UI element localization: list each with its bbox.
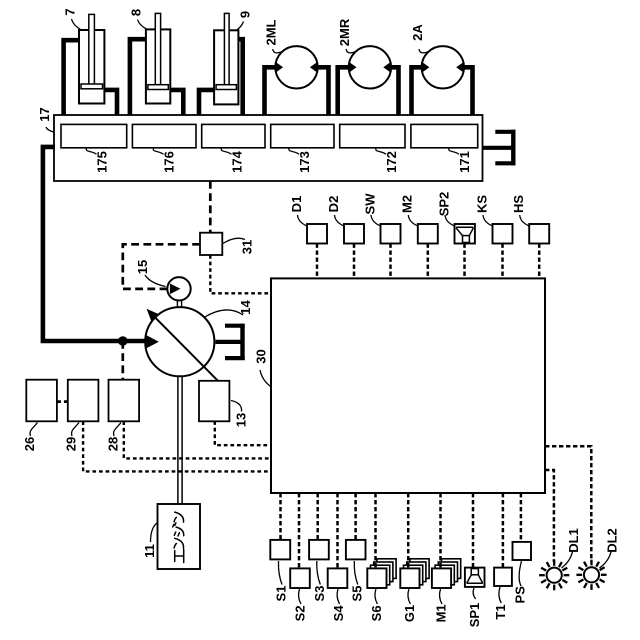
label 28 xyxy=(106,423,122,452)
svg-text:S2: S2 xyxy=(293,605,308,621)
label HS xyxy=(511,195,530,227)
wire: cylinder 8 head-side pipe xyxy=(130,39,146,117)
tank symbol (pump suction) xyxy=(216,324,245,360)
svg-text:14: 14 xyxy=(238,300,253,315)
control valve 176 xyxy=(132,124,196,147)
wire: cylinder 7 rod-side pipe xyxy=(104,90,117,117)
motor 2ML xyxy=(275,46,317,88)
sensor D1 xyxy=(307,224,327,244)
label 30 xyxy=(254,349,271,386)
svg-text:M1: M1 xyxy=(434,604,449,622)
label S1 xyxy=(274,561,289,601)
sensor PS xyxy=(513,542,532,560)
svg-text:31: 31 xyxy=(240,240,255,254)
signal line: controller to S2 xyxy=(298,493,301,568)
label D2 xyxy=(326,196,345,227)
label T1 xyxy=(493,587,508,620)
cylinder 8 xyxy=(146,13,170,103)
label KS xyxy=(474,195,493,227)
arrowhead: flow into pump 14 xyxy=(146,335,159,349)
shaft: engine to pump xyxy=(178,376,182,504)
signal line: regulator 13 to controller xyxy=(215,421,271,445)
signal line: controller to DL2 xyxy=(545,446,591,562)
box 26 xyxy=(26,380,57,422)
svg-text:S1: S1 xyxy=(274,586,289,602)
box 29 xyxy=(68,380,99,422)
label 173 xyxy=(289,148,312,173)
engine 11 xyxy=(158,504,201,569)
svg-text:17: 17 xyxy=(37,107,52,121)
wire: motor 2A left pipe xyxy=(412,67,423,117)
label 172 xyxy=(376,148,399,173)
sensor M2 xyxy=(418,224,438,244)
label 29 xyxy=(64,423,80,452)
label 175 xyxy=(86,148,109,173)
svg-text:173: 173 xyxy=(297,151,312,173)
svg-text:PS: PS xyxy=(513,586,528,604)
signal line: controller to S1 xyxy=(279,493,282,540)
device S6 front xyxy=(367,568,386,588)
svg-text:28: 28 xyxy=(106,437,121,451)
wire: motor 2MR left pipe xyxy=(338,67,350,117)
motor 2MR xyxy=(349,46,391,88)
text エンジン (engine) xyxy=(173,512,184,562)
valve block 17 xyxy=(54,115,483,181)
sensor S3 xyxy=(309,540,329,560)
signal line: sensor M2 to controller xyxy=(427,244,430,279)
label G1 xyxy=(402,589,417,622)
sensor SP2 xyxy=(455,224,475,244)
main pump 14 xyxy=(145,307,214,376)
speaker SP1 xyxy=(465,568,485,587)
label S3 xyxy=(312,561,327,601)
signal line: controller to PS xyxy=(520,493,523,542)
svg-text:2ML: 2ML xyxy=(264,19,279,45)
sensor S2 xyxy=(290,568,310,588)
wire: main pump discharge line xyxy=(43,147,146,341)
label 13 xyxy=(231,401,249,428)
label SP2 xyxy=(436,192,455,227)
device T1 xyxy=(494,568,512,586)
label 171 xyxy=(449,148,472,173)
label DL1 xyxy=(562,528,582,568)
signal line: controller to T1 xyxy=(502,493,505,568)
svg-text:26: 26 xyxy=(22,437,37,451)
svg-text:9: 9 xyxy=(238,11,253,18)
label 31 xyxy=(223,238,255,254)
svg-text:HS: HS xyxy=(511,195,526,213)
wire: cylinder 8 rod-side pipe xyxy=(170,90,183,117)
wire: motor 2MR right pipe xyxy=(390,67,398,117)
svg-text:D2: D2 xyxy=(326,196,341,213)
lamp DL1 xyxy=(539,560,569,590)
signal line: sensor KS to controller xyxy=(501,244,504,279)
signal line: controller to DL1 xyxy=(545,470,554,562)
svg-text:T1: T1 xyxy=(493,604,508,619)
label 15 xyxy=(135,260,165,287)
device S6 stack xyxy=(371,559,397,585)
motor 2A xyxy=(422,46,464,88)
signal line: sensor HS to controller xyxy=(538,244,541,279)
svg-text:D1: D1 xyxy=(289,196,304,213)
wire: motor 2ML left pipe xyxy=(265,67,277,117)
svg-text:29: 29 xyxy=(64,437,79,451)
junction: supply line to box 28 tap xyxy=(118,336,128,346)
device G1 front xyxy=(400,568,419,588)
svg-text:11: 11 xyxy=(142,544,157,558)
svg-text:13: 13 xyxy=(234,413,249,427)
svg-text:SP2: SP2 xyxy=(436,192,451,217)
wire: motor 2A right pipe xyxy=(463,67,473,117)
svg-text:G1: G1 xyxy=(402,605,417,622)
svg-text:SW: SW xyxy=(362,193,377,215)
svg-text:KS: KS xyxy=(474,195,489,213)
signal line: sensor SP2 to controller xyxy=(463,244,466,279)
svg-text:15: 15 xyxy=(135,260,150,274)
signal line: sensor D2 to controller xyxy=(353,244,356,279)
svg-text:176: 176 xyxy=(162,151,177,173)
cylinder 7 xyxy=(79,14,104,103)
box 28 xyxy=(109,380,140,422)
svg-text:S5: S5 xyxy=(349,586,364,602)
swash-plate arrow of pump 14 xyxy=(147,309,218,381)
svg-text:DL1: DL1 xyxy=(566,528,581,553)
lamp DL2 xyxy=(576,560,606,590)
signal line: controller to G1 xyxy=(407,493,410,568)
svg-text:7: 7 xyxy=(63,8,78,15)
device G1 stack xyxy=(404,559,430,585)
wire: cylinder 9 rod-side pipe xyxy=(199,90,214,117)
label 26 xyxy=(22,423,38,452)
svg-text:175: 175 xyxy=(95,151,110,173)
sensor S5 xyxy=(346,540,366,560)
control valve 175 xyxy=(61,124,127,147)
signal line: valve 31 to controller xyxy=(210,255,271,293)
sensor KS xyxy=(493,224,513,244)
svg-text:171: 171 xyxy=(457,151,472,173)
signal line: controller to S3 xyxy=(316,493,319,540)
svg-text:8: 8 xyxy=(129,9,144,16)
label 2MR xyxy=(337,18,355,53)
regulator 13 xyxy=(199,381,229,422)
sensor S4 xyxy=(328,568,348,588)
label M2 xyxy=(400,195,419,226)
label 9 xyxy=(237,11,253,30)
svg-text:30: 30 xyxy=(254,349,269,363)
sensor SW xyxy=(381,224,401,244)
solenoid valve 31 xyxy=(200,233,222,255)
label 176 xyxy=(153,148,176,173)
sensor HS xyxy=(529,224,549,244)
label D1 xyxy=(289,196,308,227)
device M1 stack xyxy=(435,559,461,585)
label S4 xyxy=(331,589,346,621)
control valve 172 xyxy=(340,124,405,147)
sensor S1 xyxy=(270,540,290,560)
device M1 front xyxy=(432,568,451,588)
signal line: sensor SW to controller xyxy=(389,244,392,279)
label S6 xyxy=(369,589,384,621)
svg-text:172: 172 xyxy=(384,151,399,173)
label 2ML xyxy=(264,19,282,52)
pilot pump 15 xyxy=(167,277,190,300)
svg-text:2A: 2A xyxy=(410,24,425,41)
label 2A xyxy=(410,24,428,53)
signal line: controller to S5 xyxy=(354,493,357,540)
control valve 174 xyxy=(202,124,265,147)
svg-text:DL2: DL2 xyxy=(605,528,620,553)
signal line: controller to S4 xyxy=(336,493,339,568)
sensor D2 xyxy=(344,224,364,244)
control valve 171 xyxy=(411,124,478,147)
pilot link: box 26 to box 29 xyxy=(57,400,68,403)
label S5 xyxy=(349,561,364,601)
signal line: box 29 to controller xyxy=(83,421,271,471)
label 174 xyxy=(221,148,244,173)
shaft: pump to pilot pump xyxy=(177,300,181,308)
svg-text:S3: S3 xyxy=(312,586,327,602)
label 11 xyxy=(142,523,157,558)
label S2 xyxy=(293,589,308,621)
control valve 173 xyxy=(271,124,334,147)
svg-text:S6: S6 xyxy=(369,605,384,621)
cylinder 9 xyxy=(214,13,238,104)
signal line: box 28 to controller xyxy=(124,421,271,458)
label 7 xyxy=(63,8,81,29)
label DL2 xyxy=(600,528,620,568)
svg-text:SP1: SP1 xyxy=(467,603,482,628)
signal line: sensor D1 to controller xyxy=(316,244,319,279)
signal line: controller to SP1 xyxy=(472,493,475,568)
label 17 xyxy=(37,107,54,132)
wire: motor 2ML right pipe xyxy=(317,67,329,117)
label PS xyxy=(513,561,528,603)
label M1 xyxy=(434,589,449,622)
wire: cylinder 9 head-side pipe xyxy=(238,39,242,117)
label SP1 xyxy=(467,588,482,627)
pilot line: solenoid valve 31 to pilot pump 15 xyxy=(123,244,200,289)
signal line: controller to S6 xyxy=(374,493,377,568)
svg-text:S4: S4 xyxy=(331,605,346,622)
label SW xyxy=(362,193,381,226)
controller 30 xyxy=(271,278,545,493)
label 8 xyxy=(129,9,147,29)
label 14 xyxy=(205,300,253,317)
pilot line: junction to box 28 xyxy=(121,341,124,380)
pilot line: valve block to solenoid valve 31 xyxy=(209,181,212,233)
tank symbol (valve block return) xyxy=(483,130,516,166)
wire: cylinder 7 head-side pipe xyxy=(64,40,79,117)
signal line: controller to M1 xyxy=(439,493,442,568)
svg-text:2MR: 2MR xyxy=(337,18,352,46)
svg-text:M2: M2 xyxy=(400,195,415,213)
